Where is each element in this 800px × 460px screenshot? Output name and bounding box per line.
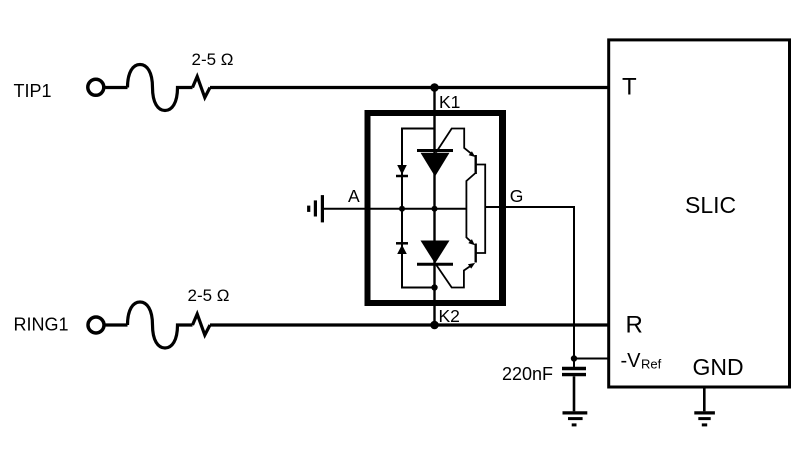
wire ground to node A — [324, 208, 467, 210]
svg-text:220nF: 220nF — [502, 364, 553, 384]
svg-text:R: R — [626, 312, 643, 339]
wire K1 to K2 (main vertical) — [433, 88, 435, 326]
junction node K2 — [430, 321, 439, 330]
svg-text:A: A — [348, 186, 360, 206]
diode D1 (upper left) — [397, 165, 407, 175]
diode D2 (lower left) — [396, 242, 408, 245]
ground (capacitor) — [563, 411, 588, 414]
svg-text:-V: -V — [621, 350, 642, 372]
arrow lower — [468, 263, 475, 269]
terminal RING1 — [88, 317, 104, 333]
junction dot (left branch / A line) — [399, 206, 405, 212]
svg-text:GND: GND — [693, 354, 744, 380]
svg-text:T: T — [622, 74, 637, 101]
thyristor lower (cathode bar) — [417, 263, 453, 266]
svg-text:K1: K1 — [439, 92, 460, 112]
thyristor upper (cathode bar) — [417, 149, 453, 152]
svg-text:2-5 Ω: 2-5 Ω — [192, 50, 234, 69]
terminal TIP1 — [88, 79, 104, 95]
gate path upper (diagonal to transistor) — [436, 129, 472, 154]
ground (node A) — [321, 195, 324, 222]
svg-text:RING1: RING1 — [14, 315, 69, 335]
svg-text:2-5 Ω: 2-5 Ω — [188, 286, 230, 305]
wire G (gate out to the right, down to -VRef node) — [485, 207, 574, 359]
wire node to capacitor — [573, 359, 575, 368]
wire SLIC GND pin to ground — [703, 389, 706, 412]
junction dot (main vertical / bottom connector) — [431, 284, 437, 290]
svg-text:TIP1: TIP1 — [14, 81, 52, 101]
wire node to SLIC -VRef pin — [574, 358, 609, 360]
resistor 2-5 ohm (TIP) — [193, 77, 211, 98]
ground (SLIC GND) — [694, 411, 715, 414]
transistor Q1 base bar — [475, 155, 477, 174]
SLIC box U1 — [609, 40, 790, 387]
capacitor C1 220nF — [562, 367, 586, 370]
fuse F1 (wave) — [128, 65, 193, 111]
arrow upper — [469, 151, 476, 157]
wire resistor to SLIC pin T — [210, 86, 609, 89]
arrow middle — [468, 239, 475, 245]
protector package box — [368, 113, 504, 303]
transistor emitter link Q1 to Q2 — [466, 174, 475, 243]
junction dot (gate / -VRef node) — [571, 355, 577, 361]
resistor 2-5 ohm (RING) — [193, 314, 211, 335]
wire resistor to SLIC pin R — [210, 323, 609, 326]
wire RING1 terminal to fuse — [106, 323, 128, 326]
gate path lower (diagonal to transistor) — [436, 265, 472, 288]
junction node K1 — [430, 83, 439, 92]
transistor Q2 base bar — [475, 244, 477, 263]
svg-text:SLIC: SLIC — [685, 192, 736, 218]
thyristor lower (triangle) — [421, 241, 450, 264]
wire TIP1 terminal to fuse — [105, 86, 127, 89]
svg-text:Ref: Ref — [641, 357, 662, 372]
fuse F2 (wave) — [128, 302, 193, 348]
svg-text:G: G — [510, 186, 524, 206]
junction dot (main vertical / A line) — [432, 206, 438, 212]
transistor collector bus (Q1/Q2 to gate line) — [476, 165, 485, 254]
svg-text:K2: K2 — [439, 306, 460, 326]
wire capacitor to ground — [573, 376, 576, 411]
thyristor upper (triangle) — [421, 153, 450, 177]
wire left branch (top connector, vertical, bottom connector) — [402, 129, 435, 288]
